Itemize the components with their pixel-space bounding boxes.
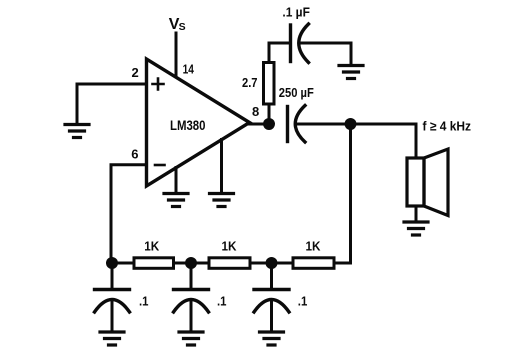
- svg-text:.1: .1: [139, 294, 149, 309]
- wire node B to capacitor C4: [190, 263, 193, 288]
- node speaker junction: [345, 118, 357, 130]
- wire capacitor .1uF to ground: [300, 43, 352, 64]
- svg-text:.1: .1: [217, 294, 227, 309]
- svg-text:1K: 1K: [222, 239, 238, 254]
- svg-text:1K: 1K: [144, 239, 160, 254]
- svg-text:f ≥ 4 kHz: f ≥ 4 kHz: [423, 118, 472, 133]
- wire ground pin (left): [175, 168, 178, 193]
- ground op-amp right: [210, 194, 234, 207]
- resistor 2.7: [264, 63, 275, 105]
- wire node B to resistor R2: [191, 262, 209, 265]
- wire node A to resistor R1: [112, 262, 134, 265]
- capacitor C3 .1: [95, 290, 130, 313]
- wire junction to speaker: [351, 124, 417, 158]
- wire speaker to ground: [415, 206, 418, 221]
- svg-text:8: 8: [252, 104, 259, 119]
- capacitor C1 .1uF: [291, 24, 309, 63]
- svg-text:.1: .1: [298, 294, 308, 309]
- wire output junction down to feedback rail: [334, 124, 351, 263]
- ground pin 2 input: [65, 125, 89, 138]
- supply label Vs: [169, 16, 186, 33]
- resistor R1 1K: [134, 258, 174, 269]
- node A (first rail junction): [106, 257, 118, 269]
- svg-text:250 µF: 250 µF: [279, 85, 314, 100]
- wire node C to resistor R3: [272, 262, 294, 265]
- wire R1 to node B: [174, 262, 192, 265]
- ground C5: [260, 332, 284, 345]
- wire capacitor C4 to ground: [190, 300, 193, 331]
- node C (third rail junction): [266, 257, 278, 269]
- wire ground pin (right): [220, 140, 223, 193]
- wire resistor top to capacitor .1uF: [269, 43, 289, 63]
- wire node to resistor 2.7: [268, 104, 271, 118]
- capacitor C5 .1: [254, 290, 289, 313]
- ground .1uF: [339, 66, 363, 79]
- op-amp U1 LM380: [147, 59, 250, 186]
- svg-text:2: 2: [132, 65, 139, 80]
- svg-text:2.7: 2.7: [242, 75, 258, 90]
- ground C4: [179, 332, 203, 345]
- svg-text:1K: 1K: [306, 239, 322, 254]
- svg-text:14: 14: [183, 61, 195, 76]
- wire node C to capacitor C5: [270, 263, 273, 288]
- wire capacitor C3 to ground: [111, 300, 114, 331]
- capacitor C4 .1: [174, 290, 209, 313]
- node output junction: [263, 118, 275, 130]
- wire capacitor 250uF to speaker junction: [296, 123, 351, 126]
- speaker LS1: [407, 149, 448, 216]
- wire pin 2 input lead: [77, 84, 147, 123]
- resistor R2 1K: [209, 258, 250, 269]
- node B (second rail junction): [185, 257, 197, 269]
- wire pin 6 feedback lead: [111, 165, 147, 258]
- svg-text:.1 µF: .1 µF: [282, 6, 310, 20]
- svg-text:6: 6: [131, 147, 138, 162]
- svg-text:LM380: LM380: [170, 117, 206, 133]
- capacitor C2 250uF: [288, 106, 306, 143]
- ground C3: [100, 332, 124, 345]
- wire node A to capacitor C3: [111, 263, 114, 288]
- wire capacitor C5 to ground: [270, 300, 273, 331]
- wire R2 to node C: [250, 262, 272, 265]
- ground speaker: [404, 222, 428, 235]
- ground op-amp left: [164, 194, 188, 207]
- resistor R3 1K: [293, 258, 334, 269]
- wire Vs to pin 14: [175, 33, 178, 76]
- svg-text:S: S: [179, 21, 186, 33]
- wire apex to output node: [250, 123, 270, 126]
